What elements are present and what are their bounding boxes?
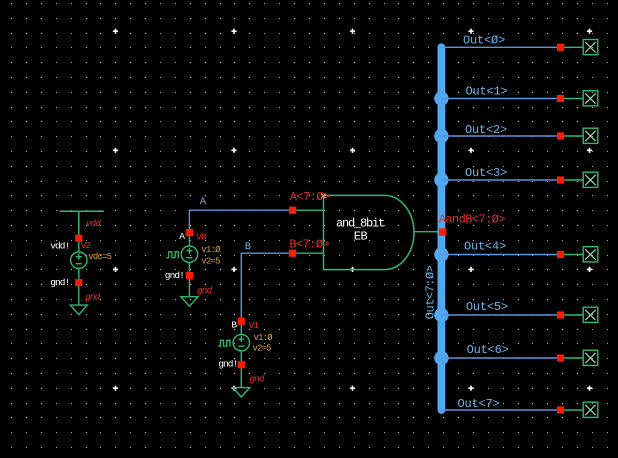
svg-text:AandB<7:Ø>: AandB<7:Ø> bbox=[439, 213, 505, 227]
svg-text:gnd!: gnd! bbox=[218, 359, 237, 370]
svg-text:Out<Ø>: Out<Ø> bbox=[463, 33, 505, 47]
wire pin-to-terminal Out<6> bbox=[564, 357, 583, 359]
pin A of V0 bbox=[186, 229, 193, 236]
pin vdd! of V2 bbox=[75, 235, 82, 242]
wire pin-to-terminal Out<3> bbox=[564, 179, 583, 181]
op gate U0 and_8bit outline bbox=[324, 195, 415, 269]
pin AandB<7:0> on bus bbox=[439, 228, 446, 235]
waveform icon of V1 bbox=[218, 340, 231, 346]
junction dot on bus at Out<3> bbox=[434, 173, 448, 187]
wire pin-to-terminal Out<0> bbox=[564, 46, 583, 48]
svg-text:V1: V1 bbox=[249, 320, 260, 331]
junction dot on bus at Out<1> bbox=[434, 91, 448, 105]
voltage source V2 (vdc) bbox=[71, 242, 87, 279]
output terminal Out<1> bbox=[583, 91, 598, 106]
output terminal Out<4> bbox=[583, 247, 598, 262]
output terminal Out<3> bbox=[583, 172, 598, 187]
svg-text:v1:Ø: v1:Ø bbox=[201, 245, 221, 255]
wire Out<3> bbox=[441, 179, 557, 181]
wire Out<0> bbox=[441, 46, 557, 48]
power rail vdd! (bar symbol) bbox=[60, 211, 105, 234]
svg-text:A: A bbox=[179, 231, 185, 242]
junction dot on bus at Out<5> bbox=[434, 308, 448, 322]
voltage source V0 (vpulse) bbox=[181, 236, 197, 272]
wire pin-to-terminal Out<5> bbox=[564, 314, 583, 316]
pin gnd! of V0 bbox=[186, 272, 193, 279]
wire Out<4> bbox=[441, 254, 557, 256]
svg-text:Out<1>: Out<1> bbox=[466, 85, 508, 99]
output terminal Out<5> bbox=[583, 307, 598, 322]
junction dot on bus at Out<4> bbox=[434, 247, 448, 261]
wire Out<5> bbox=[441, 314, 557, 316]
svg-text:gnd!: gnd! bbox=[50, 277, 69, 288]
ground symbol (V1 branch) bbox=[233, 368, 250, 397]
svg-text:vdd: vdd bbox=[86, 218, 102, 229]
svg-text:gnd: gnd bbox=[85, 292, 101, 303]
waveform icon of V0 bbox=[166, 252, 179, 258]
pin B of V1 bbox=[238, 318, 245, 325]
svg-text:gnd: gnd bbox=[197, 285, 213, 296]
pin gnd! of V2 bbox=[75, 279, 82, 286]
ground symbol (V2 branch) bbox=[70, 286, 87, 314]
svg-text:gnd: gnd bbox=[249, 374, 265, 385]
pin B<7:0> bbox=[289, 250, 296, 257]
voltage source V1 (vpulse) bbox=[233, 325, 249, 361]
svg-text:vdc=5: vdc=5 bbox=[88, 252, 111, 262]
output terminal Out<7> bbox=[583, 402, 598, 417]
pin Out<5> bbox=[557, 311, 564, 318]
gate input stub B<7:0> bbox=[296, 252, 323, 254]
junction dot on bus at Out<2> bbox=[434, 129, 448, 143]
output terminal Out<0> bbox=[583, 40, 598, 55]
svg-text:Out<5>: Out<5> bbox=[466, 300, 508, 314]
gate output stub / wire AandB bbox=[414, 231, 438, 233]
pin Out<1> bbox=[557, 95, 564, 102]
pin Out<0> bbox=[557, 44, 564, 51]
bus Out<7:0> (vertical) bbox=[437, 47, 445, 410]
svg-text:B: B bbox=[245, 241, 251, 253]
pin Out<6> bbox=[557, 354, 564, 361]
wire pin-to-terminal Out<7> bbox=[564, 409, 583, 411]
wire Out<1> bbox=[441, 98, 557, 100]
svg-text:Out<2>: Out<2> bbox=[465, 123, 507, 137]
pin Out<3> bbox=[557, 176, 564, 183]
output terminal Out<2> bbox=[583, 128, 598, 143]
svg-text:Out<6>: Out<6> bbox=[467, 343, 509, 357]
svg-text:v2=5: v2=5 bbox=[253, 343, 272, 353]
svg-text:v2=5: v2=5 bbox=[201, 256, 220, 266]
svg-text:VØ: VØ bbox=[196, 232, 207, 243]
wire pin-to-terminal Out<1> bbox=[564, 98, 583, 100]
junction dot on bus at Out<6> bbox=[434, 351, 448, 365]
pin Out<7> bbox=[557, 406, 564, 413]
wire Out<7> bbox=[441, 409, 557, 411]
svg-text:EB: EB bbox=[354, 229, 368, 243]
ground symbol (V0 branch) bbox=[181, 279, 198, 306]
svg-text:Out<3>: Out<3> bbox=[465, 166, 507, 180]
wire A (net from V0 to gate input) bbox=[189, 210, 292, 232]
svg-text:vdd!: vdd! bbox=[50, 240, 69, 251]
svg-text:gnd!: gnd! bbox=[165, 270, 184, 281]
output terminal Out<6> bbox=[583, 350, 598, 365]
pin A<7:0> bbox=[289, 207, 296, 214]
pin Out<4> bbox=[557, 251, 564, 258]
pin Out<2> bbox=[557, 132, 564, 139]
svg-text:B<7:Ø>: B<7:Ø> bbox=[289, 238, 329, 252]
svg-text:B: B bbox=[231, 320, 237, 331]
wire Out<6> bbox=[441, 357, 557, 359]
svg-text:A: A bbox=[200, 196, 207, 208]
svg-text:V2: V2 bbox=[81, 240, 92, 251]
wire B (net from V1 to gate input) bbox=[241, 253, 292, 321]
origin marker of gate bbox=[321, 194, 325, 198]
wire pin-to-terminal Out<2> bbox=[564, 135, 583, 137]
wire pin-to-terminal Out<4> bbox=[564, 254, 583, 256]
wire Out<2> bbox=[441, 135, 557, 137]
svg-text:Out<4>: Out<4> bbox=[464, 240, 506, 254]
svg-text:v1:Ø: v1:Ø bbox=[254, 333, 274, 343]
svg-text:Out<7>: Out<7> bbox=[458, 397, 500, 411]
pin gnd! of V1 bbox=[238, 361, 245, 368]
gate input stub A<7:0> bbox=[296, 209, 323, 211]
svg-text:and_8bit: and_8bit bbox=[336, 216, 384, 230]
